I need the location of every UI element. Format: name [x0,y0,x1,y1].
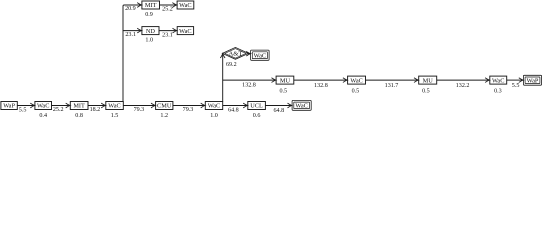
svg-text:23.1: 23.1 [125,32,136,38]
label 132.8 a [242,83,256,89]
wire WaC to CMU [123,103,155,108]
svg-text:23.1: 23.1 [162,33,173,39]
svg-text:MIT: MIT [73,103,85,110]
label 132.2 [456,83,470,89]
svg-text:1.0: 1.0 [210,113,218,118]
label 0.5 a [279,89,287,95]
svg-text:18.2: 18.2 [90,107,101,113]
svg-text:MU: MU [423,77,434,84]
node WaC top1 [177,1,194,9]
svg-text:0.6: 0.6 [253,113,261,118]
svg-text:69.2: 69.2 [226,62,237,68]
wire trunk WaC to A&T [220,54,225,102]
svg-text:79.3: 79.3 [183,107,194,113]
label WaP start [3,103,15,110]
label 69.2 [226,62,237,68]
label 1.0 under ND [145,38,153,44]
wire trunk branch to MU [223,78,276,83]
label 0.5 b [352,89,360,95]
svg-text:131.7: 131.7 [385,83,399,89]
svg-text:5.5: 5.5 [512,83,520,89]
node WaP final double [523,75,541,85]
node WaP start [1,102,17,110]
node WaC mid2 [490,76,507,84]
label 0.4 [39,113,47,119]
svg-text:WaC: WaC [108,103,120,110]
label 5.5 mid [512,83,520,89]
svg-text:25.2: 25.2 [53,107,64,113]
label 64.8 a [228,108,239,114]
label 1.2 [160,113,168,119]
svg-text:1.0: 1.0 [145,38,153,44]
label 64.8 b [273,108,284,114]
node MIT bottom [70,102,88,110]
wire WaP to WaC [17,103,34,108]
svg-text:1.5: 1.5 [111,113,119,118]
label 132.8 b [314,83,328,89]
node A&T diamond [222,47,248,59]
label WaC mid1 [350,77,362,84]
svg-text:CMU: CMU [157,103,172,110]
wire WaC to WaP final [507,78,524,83]
wire trunk WaC to MIT top branch [123,3,142,102]
label WaC 1.5 [108,103,120,110]
svg-text:WaC: WaC [37,103,49,110]
wire WaC to MU 2 [366,78,419,83]
label MIT top [145,2,157,9]
svg-text:5.5: 5.5 [19,108,27,114]
node WaC 1.5 [106,102,124,110]
node WaC final double [292,100,311,110]
label A&T [228,50,242,57]
svg-text:WaC: WaC [350,77,362,84]
svg-text:MU: MU [280,77,291,84]
svg-text:MIT: MIT [145,2,157,9]
svg-text:0.4: 0.4 [39,113,47,118]
svg-text:25.2: 25.2 [162,7,173,13]
svg-text:WaC: WaC [295,103,307,110]
svg-text:132.8: 132.8 [314,83,328,89]
svg-text:0.8: 0.8 [75,113,83,118]
label 25.2 bottom [53,107,64,113]
node ND [142,27,159,35]
node WaC mid1 [348,76,366,84]
wire CMU to WaC [173,103,205,108]
node MU 1 [276,76,294,84]
svg-text:0.5: 0.5 [422,89,430,95]
node MU 2 [419,76,437,84]
label WaC top1 [179,2,191,9]
node WaC 1.0 [205,102,222,110]
label UCL [250,103,263,110]
label 131.7 [385,83,399,89]
node WaC 0.4 [35,102,52,110]
label 0.3 [494,89,502,95]
svg-text:0.5: 0.5 [352,89,360,95]
label 0.9 [145,12,153,18]
label MU 2 [423,77,434,84]
svg-text:0.3: 0.3 [494,89,502,95]
svg-text:0.5: 0.5 [279,89,287,95]
label 5.5 [19,108,27,114]
wire MU 2 to WaC [437,78,490,83]
label 79.3 a [134,107,145,113]
label 0.5 c [422,89,430,95]
svg-text:132.2: 132.2 [456,83,470,89]
label WaC after A&T [254,52,266,59]
svg-text:64.8: 64.8 [273,108,284,114]
svg-text:132.8: 132.8 [242,83,256,89]
svg-text:WaC: WaC [254,52,266,59]
svg-text:A&T: A&T [228,50,242,57]
svg-text:64.8: 64.8 [228,108,239,114]
node CMU [156,102,173,110]
svg-text:UCL: UCL [250,103,263,110]
svg-text:WaC: WaC [179,2,191,9]
node WaC top2 [177,27,193,35]
label 1.0 bottom [210,113,218,119]
wire MU to WaC [294,78,348,83]
node UCL [248,102,266,110]
wire MIT top to WaC [160,3,177,8]
label MU 1 [280,77,291,84]
svg-text:WaC: WaC [208,103,220,110]
label 0.8 [75,113,83,119]
label 20.9 [125,6,136,12]
svg-text:WaC: WaC [179,28,191,35]
label WaP final [527,77,539,84]
wire A&T to WaC [246,51,250,56]
label 1.5 [111,113,119,119]
label ND [146,28,156,35]
label WaC 0.4 [37,103,49,110]
wire MIT to WaC [88,103,106,108]
label MIT bottom [73,103,85,110]
node WaC after A&T double [251,50,270,60]
node MIT top [142,1,160,9]
svg-text:ND: ND [146,28,156,35]
svg-text:1.2: 1.2 [160,113,168,118]
label 0.6 [253,113,261,119]
svg-text:WaP: WaP [3,103,15,110]
wire WaC to UCL [223,103,248,108]
label 23.1 b [162,33,173,39]
wire trunk branch to ND [123,28,142,33]
label 23.1 a [125,32,136,38]
svg-text:20.9: 20.9 [125,6,136,12]
svg-text:WaC: WaC [492,77,504,84]
svg-text:WaP: WaP [527,77,539,84]
label 25.2 top [162,7,173,13]
wire WaC to MIT [52,103,71,108]
label 18.2 [90,107,101,113]
svg-text:79.3: 79.3 [134,107,145,113]
label CMU [157,103,172,110]
svg-text:0.9: 0.9 [145,12,153,18]
label WaC final [295,103,307,110]
label 79.3 b [183,107,194,113]
label WaC top2 [179,28,191,35]
wire UCL to WaC final [265,103,292,108]
wire ND to WaC [159,28,177,33]
label WaC 1.0 [208,103,220,110]
label WaC mid2 [492,77,504,84]
